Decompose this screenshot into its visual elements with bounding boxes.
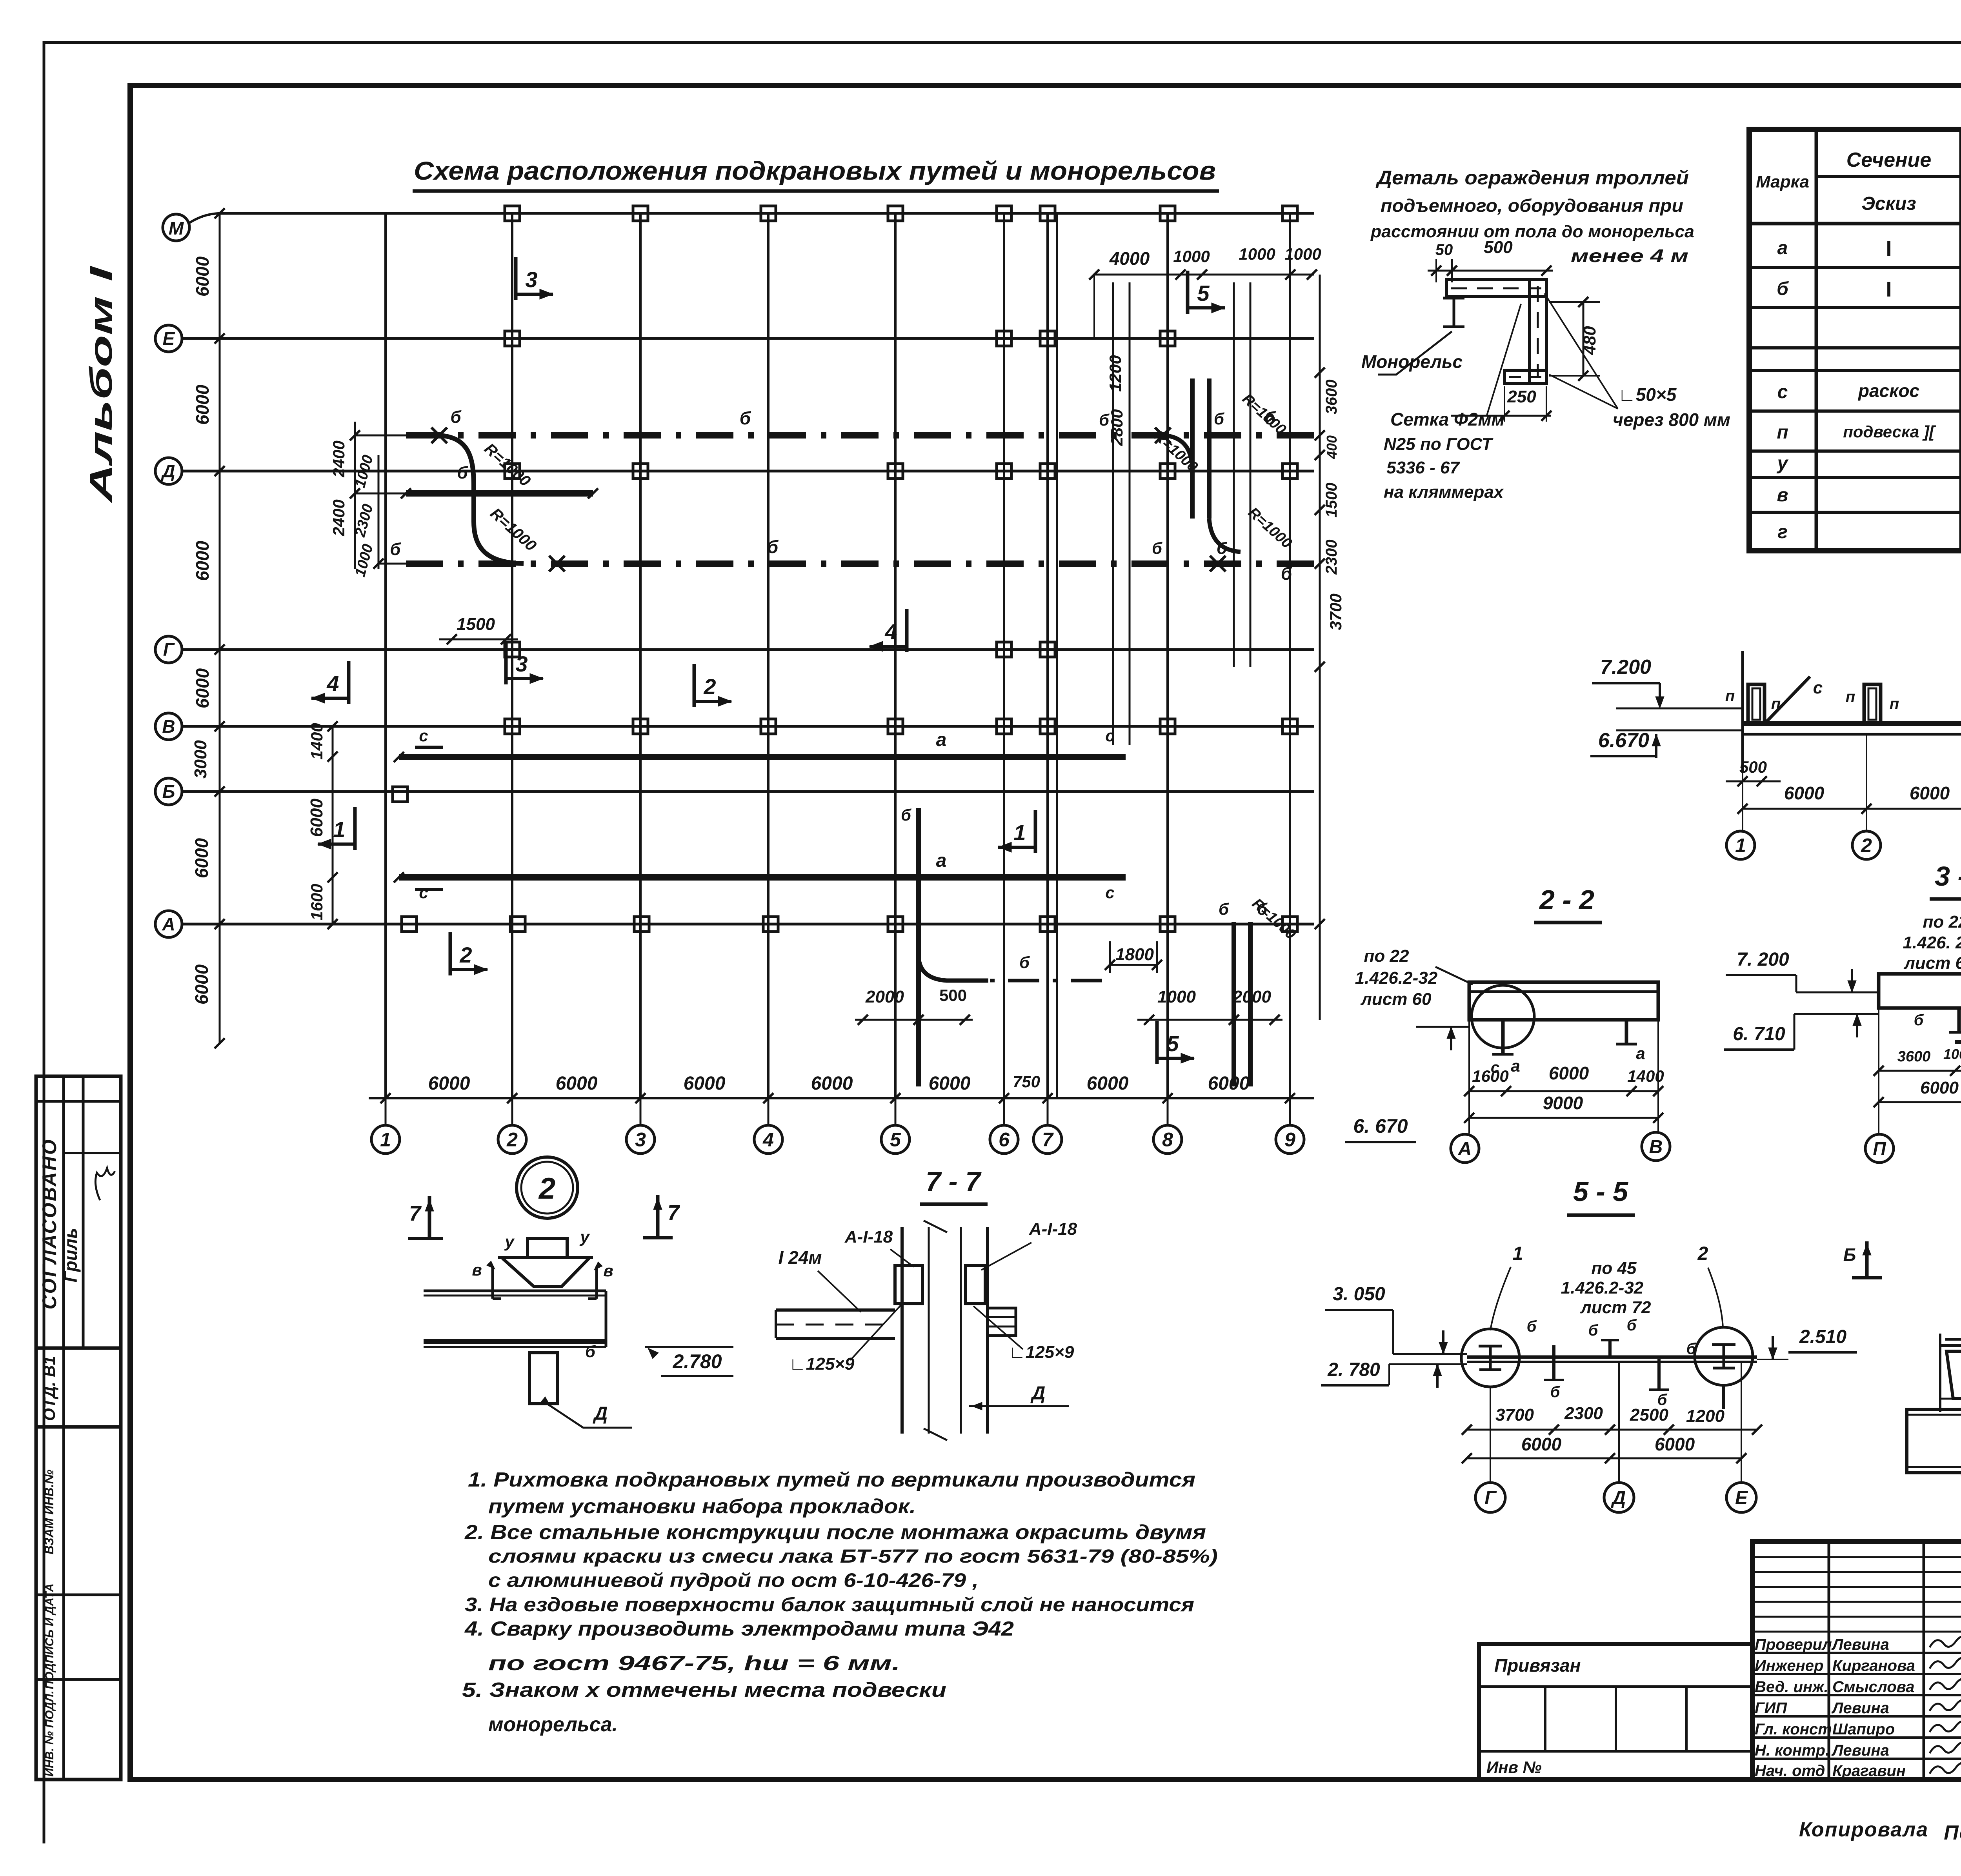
svg-text:I 24м: I 24м [779, 1247, 822, 1268]
svg-text:N25 по ГОСТ: N25 по ГОСТ [1384, 435, 1493, 454]
plan: column squares row Е [505, 331, 520, 346]
svg-text:6000: 6000 [192, 540, 213, 581]
svg-text:3700: 3700 [1495, 1405, 1534, 1425]
title block: привязан box [1479, 1644, 1752, 1780]
svg-text:9000: 9000 [1543, 1093, 1583, 1113]
svg-text:1200: 1200 [1106, 355, 1124, 391]
svg-text:1000: 1000 [1943, 1046, 1961, 1062]
svg-text:1: 1 [1735, 835, 1746, 857]
svg-text:2: 2 [506, 1129, 518, 1151]
svg-text:2. Все стальные конструкции: 2. Все стальные конструкции после монтаж… [464, 1521, 1206, 1544]
left stamp: approval block [36, 1076, 121, 1348]
svg-text:6000: 6000 [1208, 1073, 1250, 1094]
svg-text:Д: Д [1030, 1383, 1046, 1404]
svg-text:7: 7 [1042, 1129, 1054, 1151]
svg-text:с: с [419, 883, 428, 902]
title block frame [1752, 1541, 1961, 1780]
svg-text:Крагавин: Крагавин [1832, 1762, 1906, 1780]
svg-text:1400: 1400 [307, 723, 326, 759]
svg-text:с: с [1813, 678, 1823, 697]
section 7-7: flange plates [895, 1265, 922, 1304]
plan: monorail б solid segment [406, 490, 593, 497]
svg-text:путем установки набора прок: путем установки набора прокладок. [488, 1495, 916, 1518]
plan: crane beam а line 2 [399, 874, 1126, 881]
svg-text:б: б [1152, 539, 1162, 557]
svg-text:А-I-18: А-I-18 [1029, 1219, 1077, 1239]
svg-text:50: 50 [1435, 241, 1453, 258]
svg-text:ГИП: ГИП [1755, 1699, 1787, 1717]
svg-text:а: а [1777, 238, 1788, 258]
svg-text:6000: 6000 [929, 1073, 971, 1094]
plan: column squares row А [402, 917, 417, 932]
svg-text:СОГЛАСОВАНО: СОГЛАСОВАНО [38, 1138, 60, 1309]
svg-text:6000: 6000 [684, 1073, 726, 1094]
svg-text:6000: 6000 [192, 384, 213, 425]
svg-text:б: б [740, 408, 751, 428]
svg-text:б: б [450, 408, 462, 427]
section 2-2: hangers below [1501, 1020, 1505, 1054]
svg-text:6000: 6000 [428, 1073, 470, 1094]
svg-text:В: В [162, 716, 175, 737]
section 1-1: dimension chain [1743, 808, 1961, 810]
svg-text:в: в [472, 1261, 482, 1279]
plan: column squares row М [505, 206, 520, 221]
svg-text:2400: 2400 [329, 440, 348, 477]
svg-text:А-I-18: А-I-18 [844, 1227, 893, 1246]
svg-text:750: 750 [1013, 1072, 1040, 1091]
svg-text:1500: 1500 [1323, 483, 1340, 518]
section 3-3: dims [1879, 1070, 1961, 1072]
svg-text:ВЗАМ ИНВ.№: ВЗАМ ИНВ.№ [42, 1470, 56, 1555]
svg-text:а: а [1511, 1057, 1520, 1075]
section 5-5: dims [1467, 1429, 1757, 1431]
svg-text:монорельса.: монорельса. [488, 1713, 618, 1736]
svg-text:Шапиро: Шапиро [1832, 1721, 1895, 1738]
section 2-2: axis circles [1451, 1134, 1479, 1163]
svg-text:Нач. отд: Нач. отд [1755, 1762, 1825, 1780]
plan: lower-right monorail cluster [916, 808, 921, 1086]
svg-text:с: с [1105, 883, 1114, 902]
svg-text:В: В [1649, 1137, 1663, 1157]
svg-text:б: б [1281, 563, 1293, 584]
left stamp: department box [36, 1348, 121, 1427]
section 3-3: beam [1879, 974, 1961, 1008]
svg-text:2: 2 [538, 1172, 555, 1205]
plan: inner dimension chain rows В-А [332, 726, 334, 924]
svg-text:4. Сварку производить эл: 4. Сварку производить электродами типа Э… [464, 1618, 1014, 1640]
detail 1: Б section marks [1865, 1241, 1869, 1278]
svg-text:7.200: 7.200 [1600, 656, 1651, 679]
svg-text:лист 72: лист 72 [1580, 1298, 1651, 1317]
plan: monorail б dash-dot line 1 [406, 432, 1314, 439]
svg-text:1000: 1000 [1239, 245, 1275, 263]
svg-text:4: 4 [762, 1129, 774, 1151]
svg-text:подъемного, оборудования при: подъемного, оборудования при [1381, 195, 1683, 216]
svg-text:Д: Д [593, 1403, 608, 1424]
svg-text:Копировала: Копировала [1799, 1818, 1928, 1841]
svg-text:7 - 7: 7 - 7 [926, 1166, 982, 1197]
sheet outer border [43, 41, 45, 1843]
svg-text:Инженер: Инженер [1755, 1657, 1823, 1674]
svg-text:500: 500 [1739, 758, 1767, 776]
svg-text:1. Рихтовка подкрановых путе: 1. Рихтовка подкрановых путей по вертика… [468, 1468, 1195, 1491]
detail: monorail I-beam symbol [1443, 297, 1464, 300]
svg-text:ПОДПИСЬ И ДАТА: ПОДПИСЬ И ДАТА [43, 1583, 56, 1689]
svg-text:1: 1 [1513, 1243, 1523, 1264]
plan: column squares row В [505, 719, 520, 734]
detail 1: beam box [1907, 1409, 1961, 1473]
plan: monorail б dash-dot line 2 [406, 560, 1314, 567]
svg-text:лист 60: лист 60 [1903, 953, 1961, 973]
svg-text:Марка: Марка [1756, 172, 1809, 191]
svg-text:2: 2 [703, 674, 716, 699]
svg-text:3600: 3600 [1323, 380, 1340, 415]
section 2-2: dims [1469, 1090, 1658, 1092]
plan: column axis lines [384, 213, 387, 1098]
svg-text:Левина: Левина [1831, 1636, 1889, 1653]
section 1-1: hangers [1748, 684, 1765, 724]
section 1-1: axis circles [1726, 831, 1755, 859]
svg-text:через 800 мм: через 800 мм [1613, 409, 1730, 430]
svg-text:в: в [1777, 485, 1788, 506]
svg-text:а: а [1636, 1044, 1645, 1063]
svg-text:I: I [1886, 237, 1892, 260]
svg-text:А: А [162, 914, 175, 934]
section 7-7: beam from left [776, 1308, 895, 1312]
svg-text:с: с [419, 726, 428, 745]
svg-text:6000: 6000 [1784, 783, 1825, 803]
svg-text:б: б [1019, 953, 1030, 972]
section 3-3: axis circles [1865, 1134, 1894, 1163]
svg-text:1600: 1600 [1472, 1067, 1508, 1085]
svg-text:5 - 5: 5 - 5 [1573, 1176, 1628, 1207]
svg-text:г: г [1777, 522, 1788, 542]
svg-text:Инв №: Инв № [1486, 1758, 1542, 1776]
svg-text:слоями краски из смеси лака: слоями краски из смеси лака БТ-577 по го… [488, 1546, 1218, 1567]
svg-text:ОТД. В1: ОТД. В1 [40, 1356, 58, 1421]
svg-text:1: 1 [1013, 820, 1026, 845]
section 2-2: beam [1469, 982, 1658, 1020]
svg-text:1000: 1000 [1173, 247, 1210, 266]
detail 1: rail clamp line [1940, 1344, 1961, 1347]
svg-text:Смыслова: Смыслова [1832, 1678, 1915, 1696]
svg-text:у: у [504, 1232, 515, 1251]
svg-text:Д: Д [1611, 1488, 1626, 1508]
svg-text:1: 1 [333, 817, 345, 842]
svg-text:менее 4 м: менее 4 м [1571, 246, 1688, 266]
svg-text:у: у [579, 1228, 590, 1246]
svg-text:Деталь ограждения троллей: Деталь ограждения троллей [1375, 167, 1689, 189]
detail 1: rail pedestal [1946, 1351, 1961, 1399]
svg-text:п: п [1725, 688, 1735, 705]
svg-text:1: 1 [380, 1129, 391, 1151]
svg-text:6000: 6000 [1655, 1434, 1695, 1454]
section 5-5: monorail line [1467, 1356, 1757, 1359]
svg-text:п: п [1777, 422, 1788, 443]
section 1-1: axis drop lines [1742, 734, 1743, 831]
plan: crane beam а line 1 [399, 754, 1126, 760]
svg-text:А: А [1458, 1139, 1472, 1159]
svg-text:б: б [1527, 1318, 1537, 1335]
svg-text:с: с [1777, 382, 1788, 402]
svg-text:Гриль: Гриль [60, 1228, 81, 1282]
svg-text:по 22: по 22 [1923, 912, 1961, 932]
svg-text:3: 3 [525, 267, 537, 292]
svg-text:1800: 1800 [1115, 945, 1154, 964]
section 5-5: axis circles [1475, 1483, 1505, 1512]
svg-text:Гл. конст: Гл. конст [1755, 1721, 1832, 1738]
detail 2 bubble [517, 1157, 578, 1218]
svg-text:1200: 1200 [1686, 1407, 1725, 1426]
svg-text:2. 780: 2. 780 [1327, 1359, 1380, 1380]
detail: dim 480 [1583, 302, 1584, 376]
plan: row axis circles [163, 214, 189, 241]
svg-text:5: 5 [1166, 1031, 1179, 1056]
plan: monorail S-curve hooks left [439, 435, 524, 564]
svg-text:7: 7 [668, 1201, 680, 1225]
svg-text:Г: Г [1484, 1488, 1497, 1508]
svg-text:480: 480 [1580, 326, 1599, 355]
svg-text:4: 4 [326, 671, 339, 696]
svg-text:по гост 9467-75, hш: по гост 9467-75, hш = 6 мм. [488, 1652, 900, 1675]
svg-text:Кирганова: Кирганова [1832, 1657, 1915, 1674]
section 3-3: hangers [1957, 1008, 1961, 1032]
svg-text:1.426.2-32: 1.426.2-32 [1355, 968, 1438, 988]
plan: right vertical dim chain [1319, 275, 1321, 1020]
svg-text:с алюминиевой пудрой по о: с алюминиевой пудрой по ост 6-10-426-79 … [488, 1569, 979, 1591]
svg-text:1500: 1500 [457, 615, 495, 634]
plan: section cut marks [514, 257, 518, 300]
svg-text:5: 5 [1197, 281, 1210, 306]
section 5-5: end details [1461, 1329, 1519, 1387]
svg-text:б: б [1914, 1012, 1924, 1029]
svg-text:б: б [585, 1342, 596, 1361]
detail 2: rail beam [424, 1290, 606, 1292]
svg-text:3 - 3: 3 - 3 [1935, 861, 1961, 892]
svg-text:6000: 6000 [192, 256, 213, 297]
left stamp: inventory block [36, 1427, 121, 1780]
svg-text:8: 8 [1162, 1129, 1173, 1151]
plan: column axis circles [371, 1125, 400, 1154]
svg-text:М: М [169, 218, 184, 238]
svg-text:7: 7 [409, 1202, 422, 1225]
svg-text:б: б [901, 806, 911, 824]
svg-text:Б: Б [162, 781, 175, 802]
title block: left grid [1752, 1556, 1961, 1558]
svg-text:6. 710: 6. 710 [1733, 1024, 1785, 1044]
svg-text:б: б [1627, 1317, 1637, 1334]
svg-text:2300: 2300 [1323, 540, 1340, 575]
svg-text:5. Знаком х отмечены: 5. Знаком х отмечены места подвески [462, 1679, 946, 1701]
svg-text:3: 3 [635, 1129, 646, 1151]
svg-text:б: б [1219, 900, 1229, 918]
svg-text:6. 670: 6. 670 [1353, 1115, 1408, 1137]
svg-text:расстоянии от пола до моноре: расстоянии от пола до монорельса [1370, 222, 1694, 241]
svg-text:1.426.2-32: 1.426.2-32 [1561, 1278, 1644, 1297]
detail 2: monorail clamp [528, 1239, 567, 1257]
svg-text:3. 050: 3. 050 [1333, 1284, 1385, 1305]
section 7-7: bolt fitting [988, 1308, 1016, 1336]
svg-text:Альбом I: Альбом I [84, 266, 118, 503]
svg-text:Вед. инж.: Вед. инж. [1755, 1678, 1828, 1696]
svg-text:2000: 2000 [1232, 987, 1271, 1006]
svg-text:4: 4 [884, 619, 897, 644]
svg-text:Подлевская: Подлевская [1944, 1821, 1961, 1844]
svg-text:2000: 2000 [865, 987, 904, 1006]
svg-text:б: б [1686, 1340, 1697, 1357]
svg-text:Д: Д [160, 461, 175, 481]
svg-text:∟125×9: ∟125×9 [789, 1354, 855, 1374]
svg-text:500: 500 [1484, 238, 1513, 257]
svg-text:Е: Е [163, 328, 175, 349]
svg-text:а: а [936, 730, 947, 750]
svg-text:2: 2 [459, 943, 472, 967]
svg-text:Левина: Левина [1831, 1699, 1889, 1717]
svg-text:Эскиз: Эскиз [1861, 193, 1916, 214]
svg-text:3000: 3000 [191, 740, 210, 779]
svg-text:лист 60: лист 60 [1360, 990, 1432, 1009]
svg-text:Сечение: Сечение [1846, 149, 1932, 171]
svg-text:3: 3 [515, 651, 528, 676]
svg-text:Схема расположения подкранов: Схема расположения подкрановых путей и м… [414, 156, 1216, 185]
svg-text:2: 2 [1697, 1243, 1708, 1264]
plan: right monorail suspension verticals [1112, 282, 1114, 745]
svg-text:1.426. 2 -3.2: 1.426. 2 -3.2 [1903, 933, 1961, 952]
plan: column squares row Г [505, 642, 520, 657]
svg-text:2 - 2: 2 - 2 [1539, 884, 1594, 915]
section 1-1: braces с [1766, 677, 1810, 722]
svg-text:б: б [457, 463, 468, 482]
svg-text:6000: 6000 [191, 964, 212, 1004]
svg-text:Б: Б [1843, 1245, 1856, 1265]
svg-text:Левина: Левина [1831, 1742, 1889, 1759]
svg-text:2800: 2800 [1108, 409, 1126, 446]
svg-text:∟50×5: ∟50×5 [1618, 384, 1677, 405]
svg-text:2: 2 [1861, 835, 1872, 857]
svg-text:6000: 6000 [1549, 1063, 1589, 1083]
svg-text:7. 200: 7. 200 [1737, 949, 1789, 970]
plan: upper-right dim line [1094, 274, 1314, 276]
svg-text:6000: 6000 [192, 668, 213, 708]
svg-text:п: п [1890, 695, 1899, 713]
svg-text:5: 5 [890, 1129, 901, 1151]
svg-text:б: б [1099, 411, 1110, 429]
svg-text:500: 500 [939, 986, 967, 1004]
detail 2: hanging pipe Д [529, 1353, 557, 1404]
svg-text:б: б [1217, 539, 1227, 557]
svg-text:6: 6 [999, 1129, 1010, 1151]
svg-text:250: 250 [1507, 387, 1536, 406]
svg-text:5336 - 67: 5336 - 67 [1386, 458, 1460, 477]
svg-text:у: у [1777, 453, 1789, 474]
plan: left dimension chain [219, 213, 221, 1043]
svg-text:2400: 2400 [329, 499, 348, 536]
section 7-7: column [900, 1227, 904, 1434]
svg-text:2.510: 2.510 [1799, 1326, 1846, 1347]
svg-text:400: 400 [1324, 435, 1340, 459]
svg-text:П: П [1873, 1138, 1886, 1159]
svg-text:по 22: по 22 [1364, 946, 1409, 966]
detail 2: section 7 marks [428, 1196, 431, 1239]
svg-text:6000: 6000 [1521, 1434, 1562, 1454]
svg-text:Н. контр.: Н. контр. [1755, 1742, 1830, 1759]
svg-text:подвеска ][: подвеска ][ [1843, 422, 1936, 441]
svg-text:6000: 6000 [191, 838, 212, 878]
svg-text:б: б [1550, 1383, 1561, 1401]
detail 2: elevation 2.780 [645, 1346, 733, 1348]
section 5-5: middle hangers [1552, 1345, 1555, 1381]
svg-text:Проверил: Проверил [1755, 1636, 1832, 1653]
svg-text:6000: 6000 [1910, 783, 1950, 803]
svg-text:3700: 3700 [1326, 593, 1345, 630]
plan: bottom dimension chain [369, 1097, 1314, 1099]
svg-text:6.670: 6.670 [1598, 729, 1649, 752]
svg-text:п: п [1846, 688, 1855, 706]
svg-text:в: в [603, 1261, 613, 1280]
svg-text:б: б [1588, 1322, 1599, 1339]
svg-text:1000: 1000 [1284, 245, 1321, 263]
svg-text:б: б [390, 540, 401, 559]
svg-text:Привязан: Привязан [1494, 1655, 1581, 1676]
svg-text:а: а [936, 850, 947, 871]
svg-text:раскос: раскос [1857, 380, 1919, 401]
plan: column squares row Д [505, 464, 520, 479]
svg-text:I: I [1886, 278, 1892, 301]
svg-text:1600: 1600 [307, 884, 326, 920]
svg-text:Е: Е [1735, 1488, 1748, 1508]
svg-text:ИНВ. № ПОДЛ.: ИНВ. № ПОДЛ. [43, 1690, 56, 1776]
svg-text:4000: 4000 [1109, 248, 1150, 269]
svg-text:б: б [1214, 409, 1224, 428]
plan: column square row Б [393, 787, 407, 802]
plan: mid dimension cluster near row Д [354, 422, 356, 569]
svg-text:3600: 3600 [1897, 1048, 1931, 1065]
svg-text:Г: Г [163, 639, 175, 660]
section 1-1: crane beam [1743, 721, 1961, 726]
svg-text:6000: 6000 [1087, 1073, 1129, 1094]
svg-text:б: б [767, 537, 779, 557]
svg-text:3. На ездовые поверхности б: 3. На ездовые поверхности балок защитный… [465, 1594, 1194, 1616]
svg-text:б: б [1777, 278, 1789, 299]
svg-text:2.780: 2.780 [672, 1350, 722, 1372]
svg-text:6000: 6000 [1920, 1078, 1959, 1097]
svg-text:6000: 6000 [811, 1073, 853, 1094]
svg-text:1000: 1000 [1157, 987, 1196, 1006]
detail: guard frame drawing [1446, 280, 1546, 297]
svg-text:на кляммерах: на кляммерах [1384, 482, 1504, 502]
svg-text:2300: 2300 [1564, 1404, 1603, 1423]
svg-text:2500: 2500 [1630, 1405, 1668, 1425]
svg-text:6000: 6000 [307, 799, 326, 837]
svg-text:по 45: по 45 [1592, 1259, 1637, 1278]
plan: row axis lines [218, 212, 1314, 215]
svg-text:6000: 6000 [556, 1073, 598, 1094]
svg-text:9: 9 [1284, 1129, 1295, 1151]
